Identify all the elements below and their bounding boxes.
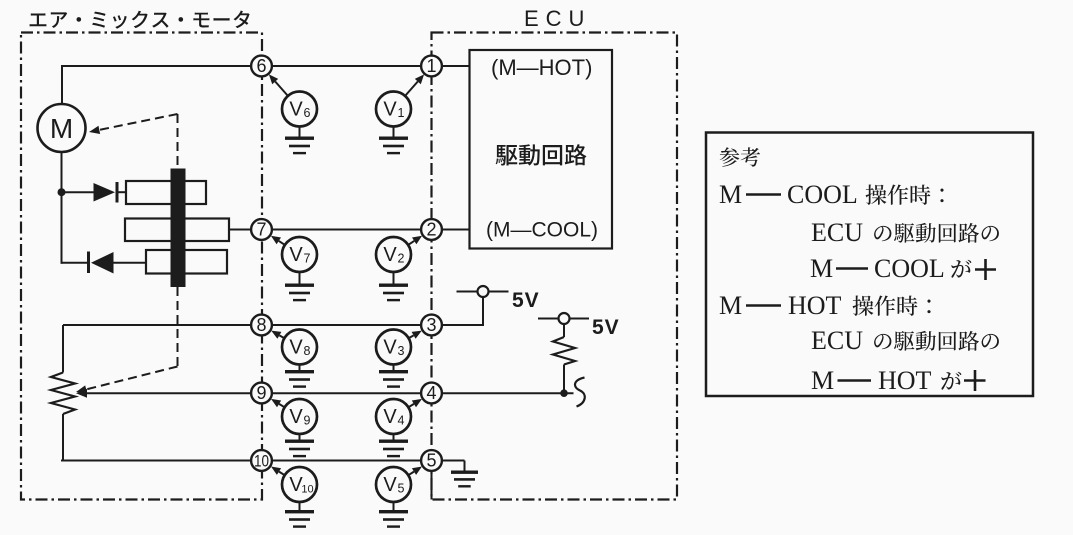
svg-text:4: 4: [398, 414, 405, 428]
wire motor top: [61, 65, 63, 105]
node 8: [251, 315, 272, 336]
wire motor bottom: [61, 152, 63, 264]
node 2: [421, 219, 442, 240]
svg-text:V: V: [383, 337, 397, 359]
node 4: [421, 383, 442, 404]
diode D2 (points left): [87, 252, 114, 274]
voltmeter V9: [282, 399, 317, 434]
svg-text:7: 7: [304, 252, 311, 266]
arrow V1 to node: [405, 74, 424, 96]
node 10: [251, 450, 272, 471]
dashed coupling line vertical upper: [177, 114, 179, 169]
svg-text:8: 8: [256, 315, 266, 335]
voltmeter V4: [376, 399, 411, 434]
svg-text:(M—COOL): (M—COOL): [486, 219, 598, 242]
5V supply terminal T1: [457, 291, 478, 293]
arrow V7 to node: [271, 236, 285, 245]
arrow V10 to node: [271, 467, 285, 476]
wire row 10-5: [61, 460, 432, 462]
svg-text:ECU: ECU: [811, 218, 863, 247]
diode D1 (points right): [94, 182, 119, 203]
svg-text:COOL: COOL: [787, 180, 858, 209]
ground at node 5: [441, 460, 465, 462]
svg-text:V: V: [289, 244, 303, 266]
node 7: [251, 219, 272, 240]
drive circuit box U1: [470, 50, 613, 249]
arrow V6 to node: [269, 74, 288, 96]
junction dot: [58, 188, 66, 196]
svg-text:1: 1: [398, 106, 405, 120]
wire node2 to drive box: [432, 229, 470, 231]
node 5: [421, 450, 442, 471]
ground under V5: [379, 502, 408, 528]
wiper arrow wire row 9-4: [87, 392, 574, 394]
node 3: [421, 315, 442, 336]
arrow V4 to node: [408, 399, 422, 407]
svg-text:V: V: [383, 99, 397, 121]
wire D2 to motor branch: [62, 262, 88, 264]
slider contact bar: [171, 169, 186, 288]
wire break squiggle: [575, 378, 585, 407]
potentiometer RP1 zigzag: [51, 373, 75, 415]
arrow V3 to node: [409, 331, 422, 339]
svg-text:V: V: [383, 406, 397, 428]
svg-text:3: 3: [398, 344, 405, 358]
wire R4 to node4 row: [563, 365, 565, 394]
note line 3: ECU drive circuit: [811, 218, 999, 247]
voltmeter V10: [282, 467, 317, 502]
svg-text:HOT: HOT: [878, 366, 932, 395]
ground under V7: [285, 272, 314, 301]
svg-text:V: V: [383, 474, 397, 496]
svg-text:M: M: [719, 291, 742, 320]
svg-text:V: V: [289, 406, 303, 428]
wire T2 to pull-up resistor: [563, 324, 565, 337]
svg-text:5: 5: [398, 482, 405, 496]
svg-text:9: 9: [256, 383, 266, 403]
svg-text:2: 2: [426, 220, 436, 240]
wire T1 down to node3 row: [482, 297, 484, 326]
svg-text:8: 8: [304, 344, 311, 358]
resistor block R3: [146, 250, 227, 274]
svg-text:M: M: [50, 113, 73, 144]
ground under V3: [379, 365, 408, 388]
wire row 6-1: [62, 65, 432, 67]
svg-text:COOL: COOL: [874, 254, 945, 283]
voltmeter V8: [282, 330, 317, 365]
node 6: [251, 56, 272, 77]
svg-text:5: 5: [426, 451, 436, 471]
svg-text:M: M: [811, 366, 834, 395]
svg-text:7: 7: [256, 220, 266, 240]
svg-text:5V: 5V: [512, 289, 540, 312]
svg-text:ECU: ECU: [524, 6, 591, 31]
svg-text:3: 3: [426, 315, 436, 335]
svg-text:10: 10: [301, 484, 313, 496]
arrow V5 to node: [408, 467, 422, 476]
svg-text:(M—HOT): (M—HOT): [491, 55, 592, 80]
wire row 7-2: [262, 229, 432, 231]
svg-text:M: M: [810, 254, 833, 283]
ground under V4: [379, 434, 408, 457]
air-mix-motor enclosure (dash-dot box): [21, 33, 262, 500]
ground under V1: [379, 127, 408, 155]
ground under V2: [379, 272, 408, 301]
resistor block R1: [126, 181, 206, 204]
ground under V8: [285, 365, 314, 388]
voltmeter V3: [376, 330, 411, 365]
arrow V8 to node: [271, 331, 284, 339]
wire node5 to ECU bottom corner: [431, 470, 433, 500]
voltmeter V5: [376, 467, 411, 502]
svg-text:1: 1: [426, 56, 436, 76]
note line 7: M - HOT is +: [811, 366, 986, 395]
voltmeter V1: [376, 92, 411, 127]
wire R2 to node 7: [229, 229, 262, 231]
svg-text:10: 10: [254, 452, 269, 471]
voltmeter V7: [282, 237, 317, 272]
dashed coupling arrow to motor: [89, 114, 178, 134]
note line 4: M - COOL is +: [810, 254, 996, 283]
svg-text:ECU: ECU: [811, 326, 863, 355]
resistor block R2: [125, 219, 229, 242]
svg-text:V: V: [289, 337, 303, 359]
node 1: [421, 56, 442, 77]
wire to diode D1: [62, 191, 94, 193]
voltmeter V6: [282, 92, 317, 127]
5V supply terminal T2: [538, 318, 559, 320]
svg-text:6: 6: [304, 106, 311, 120]
note line 5: M - HOT operation: [719, 291, 931, 320]
ground under V6: [285, 127, 314, 155]
pull-up resistor R4 zigzag: [553, 337, 575, 365]
wire potentiometer to row 10: [62, 414, 64, 461]
arrow V2 to node: [408, 236, 422, 245]
label: air mix motor title: [30, 11, 250, 29]
svg-text:HOT: HOT: [788, 291, 842, 320]
wire node1 to drive box: [432, 65, 470, 67]
motor M1 circle: [38, 104, 86, 152]
node 9: [251, 383, 272, 404]
wire row8 down to potentiometer: [62, 325, 64, 373]
svg-text:6: 6: [256, 56, 266, 76]
arrow V9 to node: [271, 399, 285, 407]
dashed coupling arrow to potentiometer wiper: [76, 367, 178, 394]
label drive circuit (kanji): [496, 144, 587, 166]
wire row 8-3 and to 5V tap: [63, 324, 483, 326]
svg-text:5V: 5V: [592, 316, 620, 339]
ground under V10: [285, 502, 314, 528]
wire R3 to diode D2: [114, 262, 147, 264]
note line 2: M - COOL operation: [719, 180, 944, 209]
svg-text:4: 4: [426, 383, 436, 403]
svg-text:9: 9: [304, 414, 311, 428]
note line 6: ECU drive circuit: [811, 326, 999, 355]
note line 1: sankou: [720, 147, 760, 166]
wire D1 to resistor block: [119, 191, 127, 193]
svg-text:M: M: [719, 180, 742, 209]
dashed coupling line vertical lower: [177, 287, 179, 367]
voltmeter V2: [376, 237, 411, 272]
reference note box: [706, 133, 1033, 397]
ECU enclosure (dash-dot box): [432, 33, 678, 500]
svg-text:V: V: [383, 244, 397, 266]
svg-text:2: 2: [398, 252, 405, 266]
junction dot node4 row: [560, 389, 568, 397]
ground under V9: [285, 434, 314, 457]
svg-text:V: V: [289, 99, 303, 121]
